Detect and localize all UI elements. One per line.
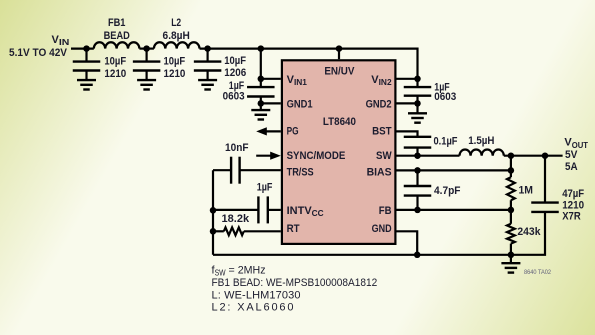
svg-text:5.1V TO 42V: 5.1V TO 42V: [9, 47, 68, 59]
junction left bus / RT: [210, 228, 217, 235]
wire 10nF to TR/SS pin: [240, 169, 281, 171]
wire GND pin to bus: [397, 231, 418, 255]
wire FB pin to divider: [397, 209, 511, 211]
inductor L 1.5uH: [460, 150, 504, 156]
svg-text:L2: L2: [171, 17, 181, 29]
junction GND2 node: [414, 100, 421, 107]
junction VIN1 branch: [258, 45, 265, 52]
wire L to VOUT: [504, 155, 563, 157]
capacitor 1uF INTVCC: [258, 196, 267, 223]
wire 243k to ground bus: [510, 244, 512, 255]
wire 1uF to INTVCC pin: [268, 209, 281, 211]
junction FB/4.7pF: [414, 207, 421, 214]
wire to GND2 ground: [416, 96, 418, 114]
wire FB1 to L2: [139, 47, 154, 49]
wire FB node to 243k: [510, 210, 512, 224]
ferrite bead FB1: [94, 42, 140, 48]
svg-text:GND2: GND2: [366, 98, 392, 110]
junction input node: [83, 45, 90, 52]
wire to C1: [85, 49, 87, 62]
wire to C2: [146, 49, 148, 62]
wire to C3: [207, 49, 209, 62]
wire BIAS pin to output column: [397, 169, 511, 171]
svg-text:8640 TA02: 8640 TA02: [524, 269, 551, 276]
junction FB1/L2 node: [143, 45, 150, 52]
junction EN/UV branch: [336, 45, 343, 52]
svg-text:SYNC/MODE: SYNC/MODE: [287, 150, 346, 162]
svg-text:0.1µF: 0.1µF: [434, 136, 458, 148]
ground output: [501, 263, 520, 272]
ground C2: [137, 80, 156, 89]
wire C3 to ground: [207, 71, 209, 81]
node PG output arrow: [256, 127, 281, 135]
svg-text:0603: 0603: [434, 91, 456, 103]
wire VOUT to 1M: [510, 156, 512, 178]
svg-text:0603: 0603: [223, 91, 245, 103]
wire BIAS to 4.7pF: [416, 170, 418, 186]
capacitor 10uF 1210 #2: [133, 62, 161, 71]
wire VOUT to 47uF: [544, 156, 546, 203]
wire bus to 18.2k: [213, 230, 224, 232]
resistor R3 18.2k: [224, 227, 244, 235]
junction left bus / INTVCC: [210, 207, 217, 214]
svg-text:10µF: 10µF: [224, 55, 246, 67]
junction BIAS/4.7pF: [414, 167, 421, 174]
svg-text:RT: RT: [287, 223, 300, 235]
junction BIAS/1M: [508, 167, 515, 174]
capacitor 10nF TR/SS: [231, 157, 240, 184]
junction ground bus / IC GND: [414, 252, 421, 258]
wire VIN1 column upper: [260, 49, 262, 88]
svg-text:10µF: 10µF: [164, 56, 186, 68]
svg-text:FB1: FB1: [108, 17, 126, 29]
svg-text:243k: 243k: [517, 226, 541, 238]
svg-text:4.7pF: 4.7pF: [434, 185, 461, 197]
wire 1M to FB node: [510, 200, 512, 210]
ground C3: [198, 80, 217, 89]
junction L2 output node: [204, 45, 211, 52]
svg-text:1210: 1210: [164, 68, 186, 80]
svg-text:BEAD: BEAD: [104, 30, 130, 42]
svg-text:BIAS: BIAS: [367, 167, 392, 179]
svg-text:1µF: 1µF: [257, 181, 273, 193]
svg-text:GND1: GND1: [287, 98, 313, 110]
wire BST cap to SW: [416, 148, 418, 156]
wire VIN input to FB1: [71, 47, 94, 49]
wire 4.7pF to FB: [416, 196, 418, 210]
svg-text:1210: 1210: [104, 68, 126, 80]
wire 47uF to ground bus: [213, 212, 545, 255]
wire 18.2k to RT pin: [244, 230, 281, 232]
svg-text:TR/SS: TR/SS: [287, 167, 314, 179]
svg-text:10µF: 10µF: [104, 56, 126, 68]
wire bus to 10nF: [213, 169, 231, 171]
wire C1 to ground: [85, 71, 87, 81]
junction ground bus / 243k: [508, 252, 515, 258]
wire VIN2 pin: [397, 78, 418, 80]
svg-text:LT8640: LT8640: [323, 116, 356, 128]
node SYNC/MODE input arrow: [256, 152, 281, 160]
svg-text:47µF: 47µF: [562, 188, 584, 200]
svg-text:L2: XAL6060: L2: XAL6060: [212, 301, 294, 313]
wire GND1 pin: [261, 102, 281, 104]
capacitor 1uF 0603 left: [247, 87, 274, 96]
svg-text:5V: 5V: [565, 149, 578, 161]
capacitor 0.1uF BST: [404, 137, 432, 148]
junction FB divider mid: [508, 207, 515, 214]
svg-text:BST: BST: [372, 126, 392, 138]
capacitor 10uF 1210 #1: [73, 62, 101, 71]
svg-text:1.5µH: 1.5µH: [468, 135, 494, 147]
svg-text:1206: 1206: [224, 67, 246, 79]
wire BST pin: [397, 131, 418, 136]
ground C1: [77, 80, 96, 89]
svg-text:FB: FB: [379, 205, 392, 217]
wire bus to 1uF: [213, 209, 258, 211]
svg-text:10nF: 10nF: [225, 142, 249, 154]
ground GND2: [408, 113, 427, 122]
wire VIN1 pin: [261, 78, 281, 80]
inductor L2 6.8uH: [154, 42, 200, 48]
resistor R1 1M: [507, 177, 515, 200]
junction VOUT divider top: [508, 152, 515, 159]
wire C2 to ground: [146, 71, 148, 81]
junction VIN2 node: [414, 76, 421, 83]
svg-text:1M: 1M: [519, 185, 534, 197]
svg-text:FB1 BEAD: WE-MPSB100008A1812: FB1 BEAD: WE-MPSB100008A1812: [212, 277, 378, 289]
wire GND2 pin: [397, 102, 418, 104]
svg-text:SW: SW: [376, 150, 392, 162]
svg-text:GND: GND: [372, 223, 392, 235]
svg-text:EN/UV: EN/UV: [324, 66, 355, 78]
wire SW pin: [397, 155, 460, 157]
capacitor 47uF 1210 X7R: [531, 203, 559, 212]
svg-text:X7R: X7R: [562, 211, 581, 223]
svg-text:5A: 5A: [565, 161, 578, 173]
wire left bus: [212, 170, 214, 255]
svg-text:L: WE-LHM17030: L: WE-LHM17030: [212, 289, 301, 301]
svg-text:18.2k: 18.2k: [222, 213, 250, 225]
wire C4 to GND1 node: [260, 97, 262, 111]
wire L2 to VIN2 column: [200, 49, 418, 88]
capacitor 1uF 0603 right: [404, 87, 432, 96]
IC U1 LT8640: [282, 60, 396, 244]
wire to bottom ground: [510, 255, 512, 263]
junction VIN1 node: [258, 76, 265, 83]
ground GND1: [251, 110, 270, 119]
capacitor 4.7pF: [404, 186, 432, 196]
resistor R2 243k: [507, 224, 515, 244]
svg-text:6.8µH: 6.8µH: [163, 30, 190, 42]
junction SW/BST node: [414, 152, 421, 159]
junction GND1 node: [258, 100, 265, 107]
svg-text:PG: PG: [287, 126, 299, 138]
capacitor 10uF 1206: [194, 62, 222, 71]
wire EN/UV pin: [338, 49, 340, 60]
junction VOUT cap top: [542, 152, 549, 159]
